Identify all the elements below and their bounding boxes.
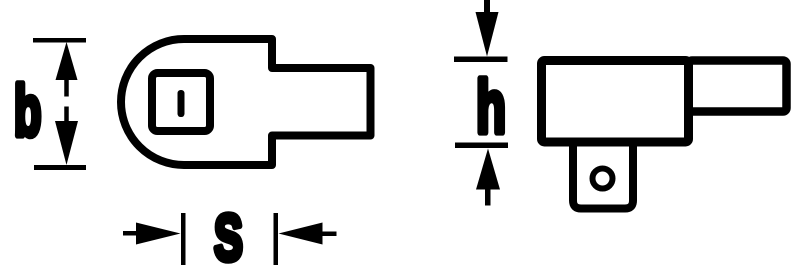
slot in square hole bbox=[178, 90, 185, 117]
dim S left arrow bbox=[136, 223, 181, 245]
dim S right stub bbox=[322, 232, 337, 237]
dim b bottom tick bbox=[34, 165, 86, 170]
dim S right tick bbox=[274, 213, 279, 265]
svg-text:h: h bbox=[476, 66, 506, 149]
dim b down arrow bbox=[64, 107, 69, 122]
square drive (side view) bbox=[573, 142, 633, 209]
dim S left stub bbox=[123, 231, 137, 236]
dim S left tick bbox=[181, 213, 186, 265]
dim b up arrow bbox=[56, 42, 78, 80]
dim h bottom arrow (up) bbox=[476, 149, 500, 190]
dim h top stem bbox=[484, 0, 490, 13]
detent ball hole bbox=[593, 169, 613, 189]
adapter head outline (top view) bbox=[121, 39, 371, 165]
adapter head (side view) bbox=[542, 61, 689, 143]
square drive hole (top view) bbox=[152, 73, 210, 131]
tang (side view) bbox=[689, 61, 787, 112]
dim h top arrow (down) bbox=[476, 12, 499, 57]
dim b top tick bbox=[33, 38, 86, 43]
dim h bottom tick bbox=[455, 143, 508, 149]
svg-text:S: S bbox=[214, 201, 243, 270]
dim h top tick bbox=[454, 57, 508, 63]
dim S right arrow bbox=[279, 223, 323, 245]
svg-text:b: b bbox=[14, 71, 41, 151]
